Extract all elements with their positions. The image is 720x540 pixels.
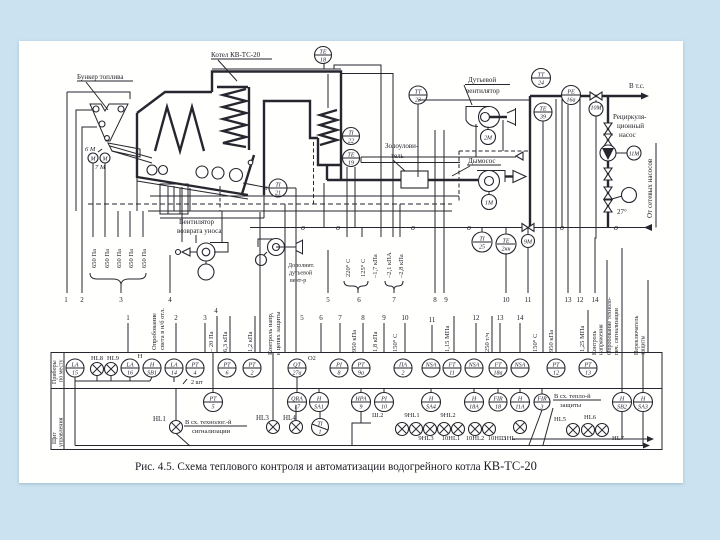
instrument TT/23 bbox=[409, 86, 427, 177]
inner U channel bbox=[264, 101, 318, 195]
svg-text:Н: Н bbox=[428, 397, 434, 403]
svg-text:ПА: ПА bbox=[398, 363, 407, 369]
svg-text:14: 14 bbox=[171, 370, 177, 377]
svg-text:15: 15 bbox=[72, 371, 78, 377]
svg-text:SB2: SB2 bbox=[617, 405, 627, 411]
label: Золоуловитель bbox=[385, 142, 419, 171]
instrument TT/25 bbox=[472, 228, 492, 253]
svg-text:9а: 9а bbox=[358, 371, 364, 377]
brace group 3 bbox=[90, 273, 146, 293]
motor 2M bbox=[481, 127, 496, 145]
svg-text:Рециркуля-: Рециркуля- bbox=[613, 113, 647, 121]
boiler return riser bbox=[323, 183, 325, 228]
fuel bunker hopper bbox=[90, 104, 128, 141]
furnace rear wall diagonal bbox=[242, 155, 254, 194]
ash return fan bbox=[176, 243, 229, 262]
instrument NSA 1 bbox=[422, 359, 440, 377]
svg-text:напряжения: напряжения bbox=[599, 324, 605, 355]
panel frame bbox=[51, 353, 662, 450]
selector H/SA3 bbox=[634, 353, 653, 412]
label: В сх. тепло-й защиты bbox=[553, 393, 601, 409]
svg-text:FIR: FIR bbox=[536, 397, 547, 403]
motor M1 bbox=[88, 153, 98, 163]
svg-text:10М: 10М bbox=[591, 106, 603, 112]
valve on network line bbox=[590, 92, 602, 100]
lamps HL5 HL6 bbox=[554, 414, 625, 442]
svg-text:PT: PT bbox=[247, 363, 256, 369]
svg-text:6: 6 bbox=[357, 296, 361, 304]
svg-text:дутьевой: дутьевой bbox=[289, 270, 313, 277]
furnace left wall bbox=[136, 113, 138, 178]
wire: horizontal above blower bbox=[418, 99, 531, 101]
svg-text:М: М bbox=[90, 157, 97, 163]
label: Контроль напряжения + wires bbox=[592, 260, 607, 355]
label 1,15 МПа + wire bbox=[444, 316, 454, 352]
flue duct ash catcher to smoke exhauster bbox=[428, 179, 478, 181]
instrument TI/22 bbox=[341, 128, 360, 145]
svg-text:NSA: NSA bbox=[514, 363, 526, 369]
stub 3 lower bbox=[203, 314, 207, 352]
lamp HL3 + label bbox=[256, 353, 280, 434]
wire: fan outlet up bbox=[221, 211, 223, 243]
svg-text:ционный: ционный bbox=[617, 122, 644, 130]
grate sprocket 4 bbox=[212, 167, 224, 179]
svg-text:18: 18 bbox=[495, 405, 501, 411]
label: Дополнит. дутьевой вент-р bbox=[288, 263, 315, 284]
svg-text:2: 2 bbox=[80, 296, 84, 304]
stub 1 lower bbox=[126, 314, 130, 352]
brace group 6 bbox=[344, 281, 368, 304]
motor M2 bbox=[98, 149, 110, 163]
wire: zoloulovitel outlet line bbox=[150, 195, 459, 197]
indicator TI/1 bbox=[312, 412, 329, 436]
svg-text:1: 1 bbox=[319, 430, 322, 436]
instrument TE/19 bbox=[341, 150, 360, 167]
svg-text:5: 5 bbox=[326, 296, 330, 304]
wire: collector line y218 bbox=[160, 217, 264, 219]
svg-text:150° С: 150° С bbox=[392, 334, 399, 352]
instrument NSA 2 bbox=[465, 359, 483, 377]
actuator 9M on return valve bbox=[522, 235, 535, 248]
svg-text:Дополнит.: Дополнит. bbox=[288, 263, 315, 269]
lamp HL9 bbox=[105, 355, 119, 381]
instrument TI/21 bbox=[243, 179, 296, 352]
sidebar label: Щит управления bbox=[52, 417, 65, 447]
svg-text:1: 1 bbox=[126, 314, 130, 322]
svg-text:7: 7 bbox=[338, 314, 342, 322]
wire: ash suction to fan bbox=[181, 211, 183, 242]
svg-text:8: 8 bbox=[433, 296, 437, 304]
svg-text:FT: FT bbox=[493, 363, 502, 369]
svg-text:PT: PT bbox=[583, 363, 592, 369]
svg-text:8: 8 bbox=[361, 314, 365, 322]
instrument FT/18a bbox=[489, 359, 507, 377]
svg-text:250 т/ч: 250 т/ч bbox=[484, 332, 491, 352]
svg-text:PT: PT bbox=[356, 363, 365, 369]
number 5 upper with stub bbox=[326, 74, 330, 304]
svg-text:10: 10 bbox=[402, 314, 410, 322]
svg-text:LA: LA bbox=[125, 363, 133, 369]
label: Переключатель защиты + wire bbox=[634, 280, 648, 355]
label 1,2 кПа + wire bbox=[247, 316, 255, 352]
svg-text:25: 25 bbox=[479, 245, 485, 251]
svg-text:TE: TE bbox=[347, 153, 354, 159]
svg-text:управления: управления bbox=[59, 417, 65, 447]
instrument TT/24 bbox=[532, 69, 551, 88]
svg-text:1,2 кПа: 1,2 кПа bbox=[247, 331, 254, 352]
instrument TE/2 bbox=[496, 228, 516, 255]
svg-text:QT: QT bbox=[293, 363, 301, 369]
label: Рециркуляционный насос bbox=[613, 113, 647, 139]
stub 8 lower with label 950 кПа bbox=[351, 314, 365, 352]
grate sprocket 3 bbox=[196, 166, 208, 178]
label 6,3 кПа + wire bbox=[222, 316, 230, 352]
blower fan bbox=[466, 107, 516, 128]
stub 11 lower thick bbox=[429, 316, 436, 352]
svg-text:TE: TE bbox=[539, 107, 546, 113]
furnace roof bbox=[137, 92, 212, 113]
svg-text:12: 12 bbox=[473, 314, 481, 322]
boiler outer box top bbox=[212, 72, 341, 166]
svg-text:О2: О2 bbox=[308, 355, 316, 362]
instrument PT/5 bbox=[204, 353, 223, 412]
svg-text:13: 13 bbox=[497, 314, 505, 322]
recirculation pump bbox=[600, 145, 616, 161]
numbers 8 9 upper bbox=[433, 296, 448, 304]
svg-text:3: 3 bbox=[540, 405, 544, 411]
label: Бункер топлива bbox=[77, 73, 133, 110]
svg-text:FT: FT bbox=[447, 363, 456, 369]
svg-text:4: 4 bbox=[168, 296, 172, 304]
svg-text:11: 11 bbox=[429, 316, 436, 324]
label: Опробование света в н/б отл. bbox=[151, 308, 166, 350]
instrument TE/18 bbox=[315, 47, 332, 70]
feeder spreader wedge bbox=[108, 143, 152, 163]
wire: dashed ash duct bbox=[219, 186, 221, 211]
svg-text:Вентилятор: Вентилятор bbox=[179, 218, 215, 226]
coil chamber right wall bbox=[248, 87, 250, 150]
svg-text:220° C: 220° C bbox=[345, 259, 352, 277]
svg-text:8: 8 bbox=[338, 371, 341, 377]
svg-text:4: 4 bbox=[214, 307, 218, 315]
svg-text:18а: 18а bbox=[494, 371, 503, 377]
svg-text:11М: 11М bbox=[629, 152, 641, 158]
svg-text:39: 39 bbox=[539, 115, 546, 121]
stub 7 lower bbox=[338, 314, 342, 352]
label: В сх. технолог.-й сигнализации bbox=[184, 419, 247, 435]
svg-text:16а: 16а bbox=[567, 98, 576, 104]
svg-text:6: 6 bbox=[319, 314, 323, 322]
svg-text:PT: PT bbox=[222, 363, 231, 369]
numbers 10 11 upper with stubs bbox=[503, 248, 532, 304]
label: Дутьевой вентилятор bbox=[464, 76, 510, 105]
svg-text:защиты: защиты bbox=[560, 402, 582, 409]
svg-text:650 Па: 650 Па bbox=[116, 249, 123, 268]
thick line to PT2 bbox=[259, 212, 261, 352]
svg-text:13: 13 bbox=[565, 296, 573, 304]
instrument PI/10 bbox=[372, 389, 394, 420]
svg-text:9: 9 bbox=[382, 314, 386, 322]
svg-text:TT: TT bbox=[415, 90, 422, 96]
svg-text:SA1: SA1 bbox=[314, 405, 324, 411]
wire: frame at TT24 bbox=[555, 99, 557, 232]
label 1,25 МПа + wire bbox=[579, 310, 588, 352]
coil 2 chamber bbox=[318, 138, 341, 165]
lamp bank 9HL/10HL bbox=[396, 423, 496, 436]
wire: furnace wall down bbox=[136, 178, 138, 211]
instrument FIR/3 bbox=[534, 389, 550, 411]
svg-text:10HL2: 10HL2 bbox=[466, 435, 484, 442]
additional blower motor bbox=[256, 252, 268, 266]
stub 2 lower bbox=[174, 314, 178, 352]
svg-text:PI: PI bbox=[335, 363, 343, 369]
instrument HRA/9 bbox=[352, 389, 371, 412]
wire: bottom bus with arrows bbox=[75, 412, 654, 449]
network supply line В т.с. bbox=[530, 82, 649, 100]
lamp HL4 + label bbox=[283, 405, 303, 434]
svg-text:3: 3 bbox=[203, 314, 207, 322]
instrument PE/16a bbox=[562, 86, 581, 105]
svg-text:Золоулови-: Золоулови- bbox=[385, 142, 419, 150]
hot water downcomer bbox=[529, 96, 531, 228]
svg-text:2М: 2М bbox=[484, 136, 493, 142]
svg-text:7: 7 bbox=[392, 296, 396, 304]
actuator 10M bbox=[589, 100, 603, 116]
svg-text:Контроль: Контроль bbox=[592, 330, 598, 355]
svg-text:2: 2 bbox=[174, 314, 178, 322]
svg-text:В т.с.: В т.с. bbox=[629, 82, 645, 90]
stub 6 lower bbox=[319, 314, 323, 352]
stub 10 lower with label 150 C bbox=[392, 314, 409, 352]
lamp HL8 bbox=[91, 355, 104, 381]
wire: diagonal from FIR/3 bbox=[529, 408, 553, 445]
instrument PT/6 bbox=[218, 359, 236, 377]
selector H/18A bbox=[465, 389, 484, 412]
pushbutton H/SB2 bbox=[613, 353, 632, 412]
air horn into duct bbox=[516, 152, 523, 160]
flue duct from boiler to ash catcher bbox=[327, 179, 401, 181]
svg-text:TT: TT bbox=[538, 73, 545, 79]
svg-text:М: М bbox=[102, 157, 109, 163]
svg-text:Дутьевой: Дутьевой bbox=[468, 76, 496, 84]
svg-text:возврата уноса: возврата уноса bbox=[177, 227, 222, 235]
wire: boiler outlet top run bbox=[334, 65, 393, 237]
lamp 11HL bbox=[501, 421, 527, 443]
svg-text:–2,1 кПА: –2,1 кПА bbox=[386, 252, 393, 279]
svg-text:FIR: FIR bbox=[492, 397, 503, 403]
instrument PT/2 bbox=[243, 359, 261, 377]
svg-text:по месту: по месту bbox=[59, 359, 65, 382]
instrument PI/8 bbox=[330, 359, 348, 377]
svg-text:QRA: QRA bbox=[291, 397, 303, 403]
svg-text:7 М: 7 М bbox=[95, 164, 106, 171]
svg-text:Переключатель: Переключатель bbox=[634, 315, 640, 355]
svg-text:6,3 кПа: 6,3 кПа bbox=[222, 331, 229, 352]
svg-text:Н: Н bbox=[138, 353, 143, 360]
svg-text:10HL1: 10HL1 bbox=[442, 435, 460, 442]
selector H/SA1 bbox=[310, 389, 329, 412]
svg-text:–2,8 кПа: –2,8 кПа bbox=[398, 254, 405, 279]
svg-text:PT: PT bbox=[551, 363, 560, 369]
wire: taps from smoke duct down bbox=[435, 130, 444, 293]
svg-text:Н: Н bbox=[619, 397, 625, 403]
wire: blower duct down legs bbox=[361, 120, 516, 163]
labels: kPa taps bbox=[372, 252, 405, 279]
grate sprocket 1 bbox=[147, 165, 157, 175]
svg-text:сигнализации: сигнализации bbox=[192, 428, 231, 435]
svg-text:В сх. технолог.-й: В сх. технолог.-й bbox=[185, 419, 232, 426]
stub 9 lower with label 1,8 кПа bbox=[372, 314, 386, 352]
svg-text:TE: TE bbox=[502, 239, 509, 245]
label: Контроль напр. в цепях защиты bbox=[267, 204, 285, 355]
svg-text:950 кПа: 950 кПа bbox=[548, 330, 555, 352]
svg-text:вентилятор: вентилятор bbox=[466, 87, 500, 95]
svg-text:12: 12 bbox=[577, 296, 585, 304]
svg-text:18: 18 bbox=[320, 58, 326, 64]
svg-text:650 Па: 650 Па bbox=[128, 249, 135, 268]
svg-text:SA3: SA3 bbox=[638, 405, 648, 411]
svg-text:SB1: SB1 bbox=[147, 371, 157, 377]
svg-text:125° C: 125° C bbox=[360, 259, 367, 277]
svg-text:в цепях защиты: в цепях защиты bbox=[275, 311, 282, 355]
stub 14 lower bbox=[517, 314, 525, 352]
svg-text:950 кПа: 950 кПа bbox=[351, 330, 358, 352]
svg-text:PE: PE bbox=[566, 90, 575, 96]
brace group 7 bbox=[385, 281, 403, 304]
svg-text:SA4: SA4 bbox=[426, 404, 436, 411]
instrument ПА/2 bbox=[394, 359, 412, 377]
svg-text:Рис. 4.5. Схема теплового конт: Рис. 4.5. Схема теплового контроля и авт… bbox=[135, 459, 537, 473]
svg-text:9: 9 bbox=[360, 405, 363, 411]
svg-text:Приборы: Приборы bbox=[51, 360, 58, 384]
svg-text:6 М: 6 М bbox=[85, 146, 96, 153]
node on furnace rear wall bbox=[248, 160, 253, 165]
coil chamber top bbox=[217, 86, 248, 88]
actuator 11M bbox=[616, 146, 641, 160]
svg-text:Котел КВ-ТС-20: Котел КВ-ТС-20 bbox=[211, 51, 261, 59]
wire: return from network pumps bbox=[655, 143, 657, 228]
svg-text:НРА: НРА bbox=[354, 397, 366, 403]
svg-text:10: 10 bbox=[381, 405, 387, 411]
stub 12 lower bbox=[473, 314, 481, 352]
svg-text:HL9: HL9 bbox=[107, 355, 119, 362]
label: Опробование технологич. сигнализации + wire bbox=[606, 248, 622, 355]
svg-text:6: 6 bbox=[226, 371, 229, 377]
svg-text:12: 12 bbox=[553, 371, 559, 377]
wires: furnace pressure taps bbox=[399, 204, 401, 237]
instrument QT/27a with O2 bbox=[288, 355, 316, 377]
svg-text:Н: Н bbox=[471, 397, 477, 403]
ash return fan motor bbox=[198, 261, 214, 280]
wires: water temp taps 220/125 bbox=[347, 167, 362, 237]
svg-text:11А: 11А bbox=[515, 405, 525, 411]
svg-text:13: 13 bbox=[585, 371, 591, 377]
dashed enclosure around smoke exhauster bbox=[459, 151, 531, 203]
svg-text:NSA: NSA bbox=[468, 363, 480, 369]
svg-text:4: 4 bbox=[194, 370, 197, 377]
lamp group labels top bbox=[404, 412, 455, 419]
wire: common lamp bus bbox=[75, 377, 152, 446]
svg-text:Контроль напр,: Контроль напр, bbox=[267, 312, 274, 355]
svg-text:14: 14 bbox=[517, 314, 525, 322]
svg-text:В сх. тепло-й: В сх. тепло-й bbox=[554, 393, 591, 400]
label 150 C right + wire bbox=[532, 240, 543, 352]
svg-text:LA: LA bbox=[169, 363, 177, 369]
svg-text:9HL1: 9HL1 bbox=[404, 412, 419, 419]
svg-text:Н: Н bbox=[517, 397, 523, 403]
svg-text:1: 1 bbox=[64, 296, 68, 304]
svg-text:–1,7 кПа: –1,7 кПа bbox=[372, 254, 379, 279]
svg-text:5: 5 bbox=[300, 314, 304, 322]
svg-text:11: 11 bbox=[449, 371, 455, 377]
svg-text:2нн: 2нн bbox=[502, 247, 511, 253]
svg-text:9HL2: 9HL2 bbox=[440, 412, 455, 419]
wires: ash compartments bbox=[174, 186, 190, 211]
svg-text:Н: Н bbox=[640, 397, 646, 403]
lamp HL1 + label bbox=[153, 389, 190, 447]
svg-text:1М: 1М bbox=[485, 201, 494, 207]
svg-text:650 Па: 650 Па bbox=[104, 249, 111, 268]
svg-text:9М: 9М bbox=[524, 240, 533, 246]
label 950 кПа right + wire bbox=[548, 99, 556, 352]
svg-text:насос: насос bbox=[619, 131, 636, 139]
svg-text:о: о bbox=[301, 223, 305, 232]
svg-text:LA: LA bbox=[70, 363, 78, 369]
svg-text:150° С: 150° С bbox=[532, 334, 539, 352]
svg-text:2 шт: 2 шт bbox=[191, 380, 203, 386]
svg-text:1,25 МПа: 1,25 МПа bbox=[579, 326, 586, 352]
svg-text:HL6: HL6 bbox=[584, 414, 597, 421]
numbers 13 12 14 upper with stubs bbox=[565, 97, 600, 304]
grate sprocket 2 bbox=[159, 166, 168, 175]
svg-text:PT: PT bbox=[190, 363, 199, 369]
wire: line 1 from bunker bbox=[66, 92, 68, 293]
svg-text:Дымосос: Дымосос bbox=[468, 157, 495, 165]
stub 13 lower bbox=[497, 314, 505, 352]
number 4 upper with stub bbox=[168, 255, 172, 304]
instrument TE/39 bbox=[534, 103, 552, 240]
svg-text:HL1: HL1 bbox=[153, 415, 166, 423]
svg-text:От сетевых насосов: От сетевых насосов bbox=[646, 158, 654, 218]
grate slant top bbox=[137, 177, 248, 195]
instrument QRA/17 bbox=[288, 377, 307, 412]
svg-text:о: о bbox=[614, 223, 618, 232]
svg-text:TE: TE bbox=[319, 50, 326, 56]
svg-text:о: о bbox=[560, 223, 564, 232]
grate slant bottom bbox=[137, 181, 248, 199]
svg-text:1,8 кПа: 1,8 кПа bbox=[372, 331, 379, 352]
svg-text:2: 2 bbox=[251, 371, 254, 377]
valve low recirc bbox=[604, 187, 612, 199]
svg-text:18А: 18А bbox=[469, 405, 479, 411]
wire: bunker frame top bbox=[67, 92, 130, 99]
svg-text:Бункер топлива: Бункер топлива bbox=[77, 73, 124, 81]
wires: five 650 Pa taps bbox=[93, 163, 143, 237]
svg-text:света в н/б отл.: света в н/б отл. bbox=[159, 308, 166, 350]
wire: HRA/9 jog bbox=[352, 412, 371, 446]
lamp group labels bottom bbox=[418, 435, 506, 442]
instrument LA/16 bbox=[121, 359, 139, 377]
svg-text:Опробование: Опробование bbox=[151, 313, 158, 350]
instrument PT/4 bbox=[183, 359, 204, 386]
instrument PT/12 bbox=[547, 359, 565, 377]
return water line with o marks bbox=[250, 223, 652, 232]
svg-text:вент-р: вент-р bbox=[290, 278, 306, 284]
svg-text:– 20 Па: – 20 Па bbox=[208, 331, 215, 353]
instrument LA/14 bbox=[165, 359, 183, 382]
svg-text:Опробование техноло-: Опробование техноло- bbox=[606, 297, 613, 355]
label: Котел КВ-ТС-20 bbox=[211, 51, 272, 81]
